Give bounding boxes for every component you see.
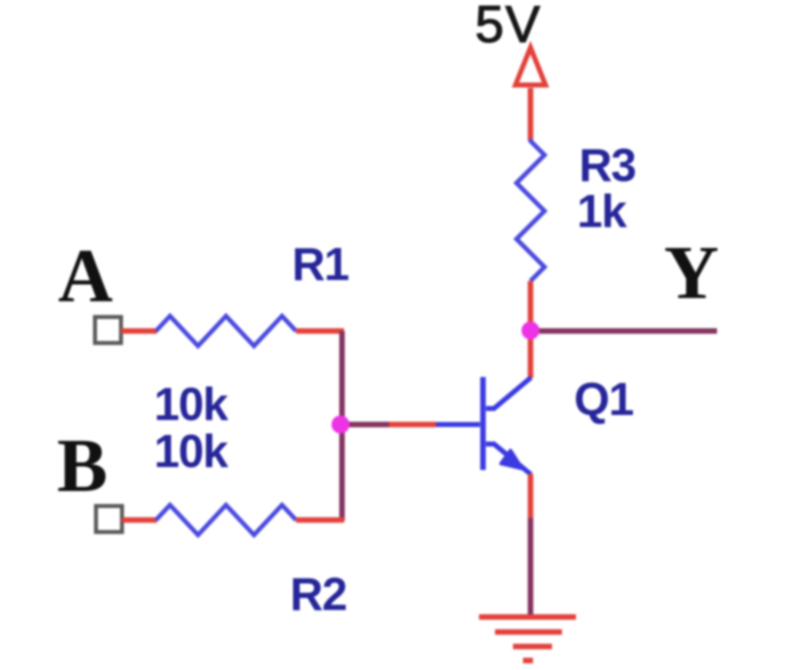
wire node to base (dark) — [342, 422, 389, 428]
svg-text:10k: 10k — [154, 378, 229, 430]
transistor Q1 — [436, 377, 531, 475]
wire R1 to corner — [296, 328, 344, 334]
wire terminal B to R2 — [122, 517, 157, 523]
svg-text:Q1: Q1 — [574, 373, 634, 425]
terminal B — [96, 506, 122, 532]
wire node to collector — [528, 331, 534, 378]
wire emitter — [528, 474, 534, 518]
svg-text:R1: R1 — [292, 238, 349, 290]
wire R2 to corner — [296, 517, 344, 523]
wire node to base (red) — [389, 422, 436, 428]
wire output Y — [531, 328, 718, 334]
resistor R2 — [156, 505, 296, 535]
svg-text:10k: 10k — [154, 425, 229, 477]
svg-text:1k: 1k — [577, 185, 627, 237]
node output junction — [522, 322, 540, 340]
svg-text:B: B — [57, 424, 108, 508]
svg-text:R2: R2 — [290, 568, 346, 620]
wire emitter to ground — [528, 518, 534, 616]
resistor R1 — [156, 316, 296, 346]
wire power to R3 — [528, 88, 534, 140]
svg-text:Y: Y — [664, 231, 719, 315]
wire vertical bus — [339, 331, 345, 521]
power symbol 5V — [516, 48, 546, 86]
node base junction — [332, 416, 350, 434]
ground — [479, 617, 576, 661]
resistor R3 — [517, 139, 545, 281]
svg-text:R3: R3 — [579, 139, 635, 191]
svg-text:A: A — [58, 234, 113, 318]
terminal A — [95, 317, 121, 343]
wire R3 to node — [528, 281, 534, 331]
wire terminal A to R1 — [121, 328, 157, 334]
